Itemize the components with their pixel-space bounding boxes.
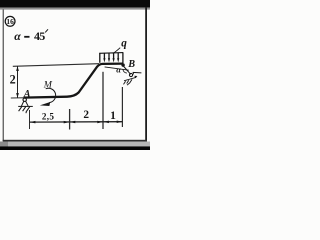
moment arc <box>46 88 56 102</box>
top reference line <box>13 64 99 67</box>
load comb line 5 <box>117 53 119 59</box>
roller ground hatching <box>124 79 133 85</box>
dim arrows at 69 <box>64 121 69 124</box>
left extension line at beam level <box>11 97 25 99</box>
roller ground arrow blob <box>134 76 137 79</box>
svg-text:2,5: 2,5 <box>42 112 54 122</box>
bottom dimension line <box>30 121 123 123</box>
svg-text:α: α <box>14 29 21 43</box>
node B dot <box>121 63 124 66</box>
load comb line 3 <box>108 53 110 59</box>
circled problem number 16 <box>5 16 15 26</box>
roller side tick <box>133 72 134 75</box>
frame bottom border <box>3 140 147 142</box>
svg-text:1: 1 <box>110 110 116 122</box>
scan bottom-left dark gray patch <box>0 142 8 147</box>
roller side horizontal mark <box>133 71 142 74</box>
svg-text:2: 2 <box>10 72 16 86</box>
frame right border <box>145 8 147 142</box>
load arrow 4 <box>113 58 115 62</box>
svg-text:45: 45 <box>34 29 45 43</box>
extension line below bend <box>69 109 71 130</box>
svg-text:q: q <box>121 38 127 50</box>
roller support rod at B <box>123 66 131 75</box>
dimension 2 vertical line <box>17 66 19 98</box>
load arrow 5 <box>117 58 119 62</box>
pin triangle legs <box>21 101 28 106</box>
svg-text:2: 2 <box>83 109 89 121</box>
scan top gray strip <box>0 8 150 10</box>
svg-text:16: 16 <box>6 17 14 26</box>
beam: A to bend to incline to top corner to B <box>24 64 124 98</box>
dim 2 top arrow <box>16 66 19 71</box>
load arrow 3 <box>108 58 110 62</box>
scan bottom black bar <box>0 146 150 150</box>
svg-text:α: α <box>116 64 121 74</box>
pin hatching <box>19 107 30 114</box>
roller ground line <box>124 77 136 81</box>
load comb line 1 <box>99 53 101 63</box>
scan top black bar <box>0 0 150 8</box>
load comb line 6 <box>122 53 124 63</box>
frame left border <box>3 9 4 141</box>
dim 2 bottom arrow <box>16 93 19 98</box>
load comb line 4 <box>113 53 115 59</box>
dim arrow right at 122.4 <box>117 121 123 124</box>
roller wheel <box>129 73 132 76</box>
q leader line <box>113 48 120 54</box>
pin ground line <box>18 105 33 107</box>
extension line below A <box>29 110 31 129</box>
dim arrows at 103 <box>97 121 103 124</box>
alpha horizontal reference at B support <box>105 67 129 70</box>
extension line below top corner <box>102 72 104 129</box>
scan bottom gray band <box>0 142 150 147</box>
load arrow 2 <box>103 58 105 62</box>
extension line below B <box>121 87 123 127</box>
svg-text:B: B <box>127 59 135 70</box>
pin circle at A <box>23 98 26 101</box>
alpha angle arc <box>123 69 127 73</box>
distributed load top line <box>99 52 123 55</box>
load comb line 2 <box>103 53 105 59</box>
dim arrow left at 29.7 <box>30 121 36 124</box>
moment arrowhead <box>40 102 50 106</box>
